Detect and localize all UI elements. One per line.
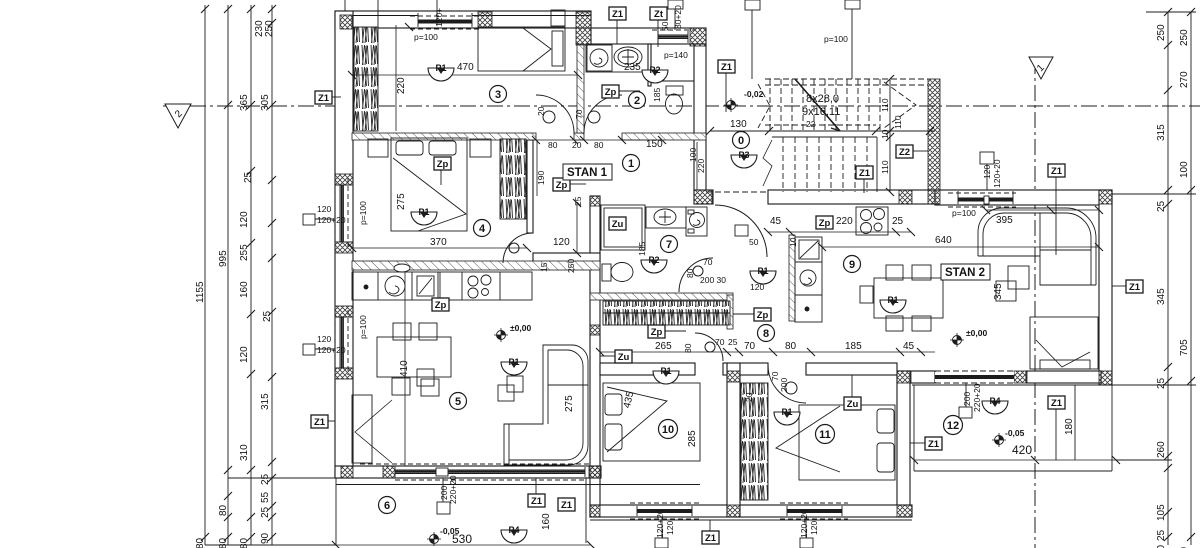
svg-text:p=100: p=100 (414, 32, 438, 42)
svg-text:4: 4 (479, 223, 486, 235)
svg-text:P4: P4 (989, 396, 1000, 406)
svg-text:120: 120 (239, 211, 250, 228)
svg-text:Zt: Zt (654, 9, 664, 20)
svg-text:130: 130 (730, 119, 747, 130)
svg-text:12: 12 (947, 420, 959, 432)
svg-text:230: 230 (254, 20, 265, 37)
svg-text:250: 250 (566, 259, 576, 273)
svg-text:Zu: Zu (612, 219, 624, 230)
svg-text:250: 250 (264, 20, 275, 37)
svg-text:22: 22 (806, 119, 816, 129)
svg-text:120+20: 120+20 (992, 159, 1002, 188)
svg-text:180: 180 (1064, 418, 1075, 435)
svg-text:220: 220 (696, 159, 706, 173)
svg-text:25: 25 (243, 171, 254, 183)
svg-text:80: 80 (594, 140, 604, 150)
svg-text:Z1: Z1 (928, 439, 940, 450)
svg-text:Zp: Zp (437, 159, 449, 170)
svg-text:995: 995 (218, 250, 229, 267)
svg-text:P3: P3 (738, 150, 749, 160)
svg-text:Zp: Zp (605, 87, 617, 98)
svg-text:Zp: Zp (819, 218, 831, 229)
svg-text:-0,05: -0,05 (1005, 428, 1025, 438)
svg-text:120: 120 (982, 165, 992, 179)
svg-text:Z1: Z1 (318, 93, 330, 104)
svg-text:15: 15 (539, 262, 549, 272)
svg-text:20: 20 (744, 392, 754, 402)
svg-text:Z1: Z1 (561, 500, 573, 511)
svg-text:310: 310 (239, 444, 250, 461)
svg-text:p=140: p=140 (664, 50, 688, 60)
svg-text:200: 200 (962, 392, 972, 406)
svg-text:160: 160 (239, 281, 250, 298)
svg-text:200: 200 (779, 378, 789, 392)
svg-text:P1: P1 (418, 207, 429, 217)
svg-text:20: 20 (572, 140, 582, 150)
svg-text:365: 365 (239, 94, 250, 111)
svg-text:1155: 1155 (195, 281, 206, 303)
svg-text:Zu: Zu (618, 352, 630, 363)
svg-text:25: 25 (728, 337, 738, 347)
svg-text:Z1: Z1 (314, 417, 326, 428)
svg-text:80: 80 (1156, 544, 1167, 548)
svg-text:6: 6 (384, 500, 390, 512)
svg-text:470: 470 (457, 62, 474, 73)
svg-text:25: 25 (1156, 529, 1167, 541)
svg-text:20: 20 (536, 106, 546, 116)
svg-text:250: 250 (1179, 29, 1190, 46)
svg-text:120: 120 (239, 346, 250, 363)
svg-text:7: 7 (666, 239, 672, 251)
svg-text:435: 435 (622, 390, 637, 409)
svg-text:p=100: p=100 (358, 201, 368, 225)
svg-text:P1: P1 (508, 357, 519, 367)
svg-text:270: 270 (1179, 71, 1190, 88)
svg-text:120: 120 (553, 237, 570, 248)
svg-text:8: 8 (763, 328, 769, 340)
svg-text:2: 2 (634, 95, 640, 107)
svg-text:220: 220 (396, 77, 407, 94)
svg-text:530: 530 (452, 532, 472, 546)
svg-text:Z1: Z1 (705, 533, 717, 544)
svg-text:395: 395 (996, 215, 1013, 226)
svg-text:Z1: Z1 (612, 9, 624, 20)
svg-text:100: 100 (1179, 161, 1190, 178)
svg-text:705: 705 (1179, 339, 1190, 356)
svg-text:120+20: 120+20 (799, 509, 809, 538)
svg-text:Z2: Z2 (899, 147, 910, 158)
svg-text:185: 185 (845, 341, 862, 352)
svg-text:25: 25 (1156, 377, 1167, 389)
svg-text:STAN 2: STAN 2 (945, 267, 985, 279)
svg-text:105: 105 (1156, 504, 1167, 521)
svg-text:80: 80 (239, 537, 250, 548)
svg-text:80: 80 (218, 537, 229, 548)
svg-text:3: 3 (495, 89, 501, 101)
svg-text:80: 80 (195, 537, 206, 548)
svg-text:50: 50 (660, 21, 670, 31)
svg-text:120+20: 120+20 (317, 345, 346, 355)
svg-text:345: 345 (1156, 288, 1167, 305)
svg-text:110: 110 (880, 98, 890, 112)
svg-text:Zp: Zp (651, 327, 663, 338)
svg-text:90: 90 (260, 532, 271, 544)
svg-text:80: 80 (685, 268, 695, 278)
svg-text:p=100: p=100 (824, 34, 848, 44)
svg-text:Z1: Z1 (531, 496, 543, 507)
svg-text:P1: P1 (887, 295, 898, 305)
svg-text:Z1: Z1 (721, 62, 733, 73)
svg-text:250: 250 (1156, 24, 1167, 41)
svg-text:80+20: 80+20 (673, 5, 683, 29)
svg-text:120: 120 (809, 521, 819, 535)
svg-text:285: 285 (687, 430, 698, 447)
svg-text:110: 110 (893, 115, 903, 129)
svg-text:11: 11 (819, 429, 831, 441)
svg-text:25: 25 (260, 506, 271, 518)
svg-text:315: 315 (1156, 124, 1167, 141)
svg-text:305: 305 (260, 94, 271, 111)
svg-text:8x28,0: 8x28,0 (806, 93, 839, 105)
svg-text:P1: P1 (435, 63, 446, 73)
svg-text:120: 120 (750, 282, 764, 292)
svg-text:70: 70 (715, 337, 725, 347)
svg-text:80: 80 (218, 504, 229, 516)
svg-text:220+20: 220+20 (972, 383, 982, 412)
svg-text:45: 45 (770, 216, 782, 227)
svg-text:p=100: p=100 (952, 208, 976, 218)
svg-text:200 30: 200 30 (700, 275, 726, 285)
svg-text:110: 110 (880, 160, 890, 174)
svg-text:315: 315 (260, 393, 271, 410)
svg-text:80: 80 (785, 341, 797, 352)
svg-text:80: 80 (548, 140, 558, 150)
svg-text:220: 220 (836, 216, 853, 227)
svg-text:25: 25 (260, 473, 271, 485)
svg-text:120: 120 (317, 334, 331, 344)
svg-text:410: 410 (399, 360, 410, 377)
svg-text:265: 265 (655, 341, 672, 352)
svg-text:1: 1 (628, 158, 634, 170)
svg-text:185: 185 (652, 88, 662, 102)
svg-text:P4: P4 (508, 525, 519, 535)
svg-text:45: 45 (903, 341, 915, 352)
svg-text:70: 70 (744, 341, 756, 352)
svg-text:50: 50 (749, 237, 759, 247)
svg-text:370: 370 (430, 237, 447, 248)
svg-text:120: 120 (665, 521, 675, 535)
svg-text:P2: P2 (649, 65, 660, 75)
svg-text:70: 70 (703, 257, 713, 267)
svg-text:55: 55 (260, 491, 271, 503)
svg-text:160: 160 (541, 513, 552, 530)
svg-text:25: 25 (892, 216, 904, 227)
svg-text:345: 345 (993, 283, 1004, 300)
svg-text:10: 10 (788, 237, 798, 247)
svg-text:220+20: 220+20 (448, 475, 458, 504)
svg-text:P1: P1 (757, 266, 768, 276)
svg-text:9: 9 (849, 259, 855, 271)
svg-text:P1: P1 (660, 366, 671, 376)
svg-text:80: 80 (683, 343, 693, 353)
svg-text:120: 120 (317, 204, 331, 214)
svg-text:Z1: Z1 (1051, 398, 1063, 409)
svg-text:25: 25 (573, 196, 583, 206)
svg-text:P2: P2 (648, 255, 659, 265)
svg-text:Zu: Zu (847, 399, 859, 410)
svg-text:275: 275 (396, 193, 407, 210)
svg-text:120+20: 120+20 (655, 509, 665, 538)
svg-text:Zp: Zp (757, 310, 769, 321)
svg-text:255: 255 (239, 244, 250, 261)
svg-text:25: 25 (1156, 200, 1167, 212)
svg-text:Z1: Z1 (1129, 282, 1141, 293)
svg-text:275: 275 (564, 395, 575, 412)
svg-text:±0,00: ±0,00 (510, 323, 531, 333)
svg-text:5: 5 (455, 396, 461, 408)
svg-text:Z1: Z1 (859, 168, 871, 179)
svg-text:10: 10 (880, 129, 890, 139)
svg-text:±0,00: ±0,00 (966, 328, 987, 338)
svg-text:0: 0 (738, 135, 744, 147)
svg-text:260: 260 (1156, 441, 1167, 458)
svg-text:640: 640 (935, 235, 952, 246)
svg-text:-0,02: -0,02 (744, 89, 764, 99)
svg-text:Zp: Zp (435, 300, 447, 311)
svg-text:Z1: Z1 (1051, 166, 1063, 177)
svg-text:235: 235 (624, 62, 641, 73)
svg-text:10: 10 (662, 424, 674, 436)
svg-text:70: 70 (574, 109, 584, 119)
svg-text:25: 25 (262, 310, 273, 322)
svg-text:120+: 120+ (434, 8, 444, 27)
svg-text:150: 150 (646, 139, 663, 150)
svg-text:Zp: Zp (556, 180, 568, 191)
svg-text:420: 420 (1012, 443, 1032, 457)
svg-text:9x16,11: 9x16,11 (802, 106, 840, 118)
svg-text:p=100: p=100 (358, 315, 368, 339)
svg-text:190: 190 (536, 171, 546, 185)
svg-text:P1: P1 (781, 407, 792, 417)
svg-text:STAN 1: STAN 1 (567, 167, 608, 179)
svg-text:185: 185 (637, 242, 647, 256)
svg-text:120+20: 120+20 (317, 215, 346, 225)
